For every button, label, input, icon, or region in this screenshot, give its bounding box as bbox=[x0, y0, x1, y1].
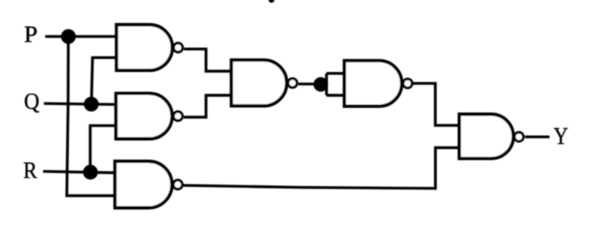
svg-text:R: R bbox=[23, 158, 37, 183]
svg-text:P: P bbox=[24, 22, 38, 47]
svg-text:Q: Q bbox=[24, 88, 39, 114]
svg-text:Y: Y bbox=[554, 122, 569, 149]
